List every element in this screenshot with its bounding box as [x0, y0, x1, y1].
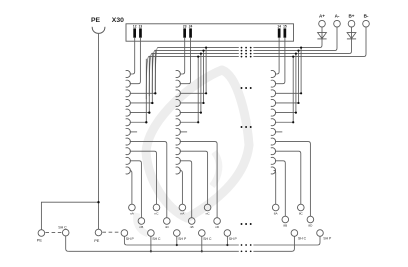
wire T1 to nB — [130, 161, 142, 218]
wire T2 to nA — [180, 171, 183, 205]
connector SH C x151 — [148, 230, 161, 253]
wire T2 lead2 to pin — [180, 38, 191, 84]
wire dashed PE-SHC — [45, 232, 61, 234]
wire T1 tap3 — [130, 92, 157, 94]
wire T8 lead2 to pin — [275, 38, 285, 84]
terminal block X30 — [112, 17, 294, 41]
svg-text:SH P: SH P — [126, 237, 135, 241]
bus continuation dots — [241, 47, 252, 58]
node 8D — [307, 216, 314, 228]
wire bus B- — [146, 57, 363, 100]
wire T1 to nA — [130, 171, 132, 205]
connector PE center — [94, 229, 102, 243]
wire PE trunk — [98, 34, 100, 230]
wire T2 to nB — [180, 161, 192, 218]
wire T1 tap5 — [130, 112, 151, 114]
svg-text:PE: PE — [37, 237, 43, 242]
svg-text:B-: B- — [364, 14, 369, 19]
node PE junction — [97, 201, 99, 203]
svg-text:nB: nB — [140, 225, 144, 229]
wire bus B+ — [149, 54, 349, 97]
wire T1 to nD — [130, 142, 167, 218]
svg-text:SH C: SH C — [152, 237, 161, 241]
terminal A- — [334, 14, 341, 27]
terminal B+ — [348, 14, 355, 27]
wire T1 lead2 to pin — [130, 38, 141, 84]
node nA — [179, 204, 186, 216]
svg-text:23: 23 — [183, 24, 187, 28]
node 8C — [298, 204, 305, 216]
terminal B- — [363, 14, 370, 27]
svg-text:13: 13 — [139, 24, 143, 28]
wire T8 lead1 to pin — [275, 38, 279, 74]
pin 23 — [183, 24, 187, 37]
wire dashed PE-SHP — [102, 231, 120, 233]
pin 15 — [283, 24, 287, 37]
connector SH C motor8 — [291, 230, 307, 252]
wire T1 tap4 — [130, 102, 154, 104]
wire T1 tap6 — [130, 121, 148, 123]
shield bus continuation dots — [241, 244, 252, 252]
wire T2 to nC — [180, 151, 208, 204]
svg-text:SH P: SH P — [229, 237, 238, 241]
svg-text:PE: PE — [94, 238, 100, 243]
svg-text:SH P: SH P — [178, 237, 187, 241]
svg-text:SH C: SH C — [203, 237, 212, 241]
wire T8 to 8B — [275, 161, 285, 216]
svg-text:SH C: SH C — [298, 237, 307, 241]
svg-text:SH P: SH P — [323, 237, 332, 241]
connector SH C x202 — [199, 230, 212, 253]
wire T2 lead1 to pin — [180, 38, 185, 74]
svg-text:14: 14 — [277, 24, 281, 28]
ellipsis y224 — [241, 223, 252, 225]
wire T1 to nC — [130, 151, 157, 204]
wire T8 tap5 — [275, 53, 297, 114]
wire shield bus SH P — [127, 236, 320, 245]
winding T8 — [271, 71, 276, 174]
wire T8 tap3 — [275, 47, 302, 95]
terminal A+ — [319, 14, 326, 27]
wire T8 stub — [275, 131, 282, 133]
wire T8 to 8C — [275, 151, 301, 204]
wire bus drop col1 x152 — [151, 53, 153, 104]
wire T2 tap6 — [180, 56, 199, 124]
node 8A — [272, 204, 279, 216]
svg-text:8B: 8B — [283, 224, 287, 228]
winding T2 — [176, 71, 181, 174]
pin 14 — [277, 24, 281, 37]
svg-text:X30: X30 — [112, 17, 124, 24]
svg-text:12: 12 — [133, 24, 137, 28]
svg-text:A+: A+ — [319, 14, 325, 19]
ellipsis y127 — [241, 126, 252, 128]
wire T8 to 8D — [275, 142, 310, 217]
wire bus A+ — [155, 48, 319, 94]
svg-text:B+: B+ — [348, 14, 354, 19]
connector SH P motor8 — [317, 230, 332, 241]
connector SH P x124 — [121, 230, 134, 245]
connector SH C far-left — [58, 226, 69, 236]
node nD — [214, 218, 221, 230]
node nC — [204, 204, 211, 216]
wire T2 tap3 — [180, 47, 207, 95]
svg-text:SH C: SH C — [58, 226, 67, 230]
wire T2 tap5 — [180, 53, 202, 114]
node nC — [153, 204, 160, 216]
wire bus drop col1 x155 — [154, 50, 156, 95]
pin 12 — [133, 24, 137, 37]
wire T2 to nD — [180, 142, 217, 218]
pin 13 — [139, 24, 143, 37]
winding T1 — [126, 71, 131, 174]
ellipsis y88 — [241, 87, 252, 89]
wire shield bus SH C — [68, 236, 294, 251]
wire bus drop col1 x149 — [148, 56, 150, 114]
svg-text:24: 24 — [189, 24, 193, 28]
node nB — [138, 218, 145, 230]
diode B+ — [347, 27, 356, 54]
pin 24 — [189, 24, 193, 37]
connector PE left — [37, 230, 45, 243]
wire T8 to 8A — [274, 171, 276, 205]
node nB — [188, 218, 195, 230]
svg-text:nB: nB — [190, 225, 194, 229]
ground PE entry — [91, 17, 105, 33]
wire terminal B- drop — [364, 27, 367, 57]
svg-text:A-: A- — [335, 14, 340, 19]
node nA — [129, 204, 136, 216]
wire T2 tap4 — [180, 50, 205, 105]
connector SH P x177 — [174, 230, 187, 246]
diode A+ — [317, 27, 326, 48]
svg-text:15: 15 — [283, 24, 287, 28]
wire T2 stub — [180, 131, 187, 133]
node nD — [164, 218, 171, 230]
wire terminal A- drop — [335, 27, 338, 51]
wire SHC to shield bus 2 — [66, 236, 69, 251]
wire T1 stub — [130, 131, 137, 133]
wire bus drop col1 x146 — [145, 59, 147, 124]
wire T8 tap4 — [275, 50, 300, 105]
connector SH P x227 — [224, 230, 237, 246]
wire T1 lead1 to pin — [130, 38, 135, 74]
wire T8 tap6 — [275, 56, 294, 124]
wire bus A- — [152, 51, 334, 94]
svg-text:PE: PE — [91, 17, 101, 24]
wire PE branch left — [41, 202, 98, 230]
node 8B — [282, 216, 289, 228]
